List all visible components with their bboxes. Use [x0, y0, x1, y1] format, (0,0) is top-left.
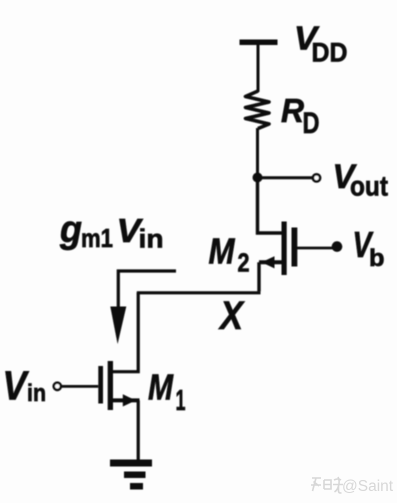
svg-text:b: b: [369, 245, 385, 272]
watermark 知乎 @Saint: [311, 477, 394, 495]
svg-text:in: in: [27, 380, 46, 407]
M1 gate lead from Vin: [61, 385, 98, 388]
svg-text:M: M: [148, 367, 174, 408]
svg-text:in: in: [139, 224, 164, 254]
power rail VDD bar: [240, 40, 278, 46]
M2 source arrow (points left): [262, 256, 275, 268]
resistor RD: [246, 91, 270, 129]
svg-text:m1: m1: [81, 223, 113, 253]
Vb solid terminal dot: [332, 241, 343, 252]
wire resistor to output node: [256, 128, 259, 178]
svg-text:g: g: [59, 209, 82, 251]
M1 source arrow (points right): [123, 394, 136, 406]
transistor M2 channel bar: [282, 222, 287, 276]
svg-text:out: out: [350, 170, 388, 201]
wire M1 source down to ground: [137, 400, 140, 461]
svg-text:R: R: [281, 92, 304, 129]
M2 source stub: [259, 260, 282, 264]
node junction dot (output node): [253, 173, 263, 183]
M2 gate lead to Vb: [297, 247, 333, 250]
transistor M1 gate bar: [98, 366, 103, 404]
svg-text:V: V: [3, 362, 30, 408]
wire node down to M2 drain: [258, 178, 283, 234]
M1 source stub: [113, 398, 140, 402]
svg-text:M: M: [209, 231, 236, 272]
wire node X down to M1 drain: [113, 293, 138, 372]
wire node X rail (horizontal): [137, 291, 261, 294]
svg-text:1: 1: [176, 385, 186, 417]
wire node to Vout terminal: [258, 176, 313, 179]
svg-text:D: D: [303, 107, 320, 140]
Vout open terminal circle: [313, 174, 320, 181]
annotation arrow gm1*Vin (bent, points down): [118, 271, 176, 312]
svg-text:DD: DD: [312, 38, 348, 68]
Vin open terminal circle: [54, 383, 61, 390]
transistor M1 channel bar: [108, 361, 113, 410]
ground symbol: [110, 460, 152, 467]
transistor M2 gate bar: [292, 228, 298, 267]
svg-text:@Saint: @Saint: [342, 478, 394, 495]
wire M2 source down to node X rail: [257, 262, 260, 291]
wire VDD to resistor: [257, 44, 260, 92]
svg-text:2: 2: [238, 247, 250, 277]
svg-text:X: X: [218, 294, 245, 338]
